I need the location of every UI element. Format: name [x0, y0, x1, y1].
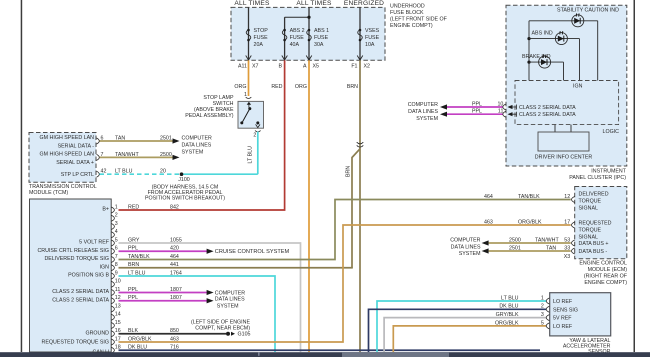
svg-text:X3: X3 — [564, 254, 571, 260]
svg-text:8: 8 — [115, 262, 118, 268]
svg-text:A11: A11 — [238, 64, 247, 70]
svg-text:PPL: PPL — [472, 101, 482, 107]
svg-text:30A: 30A — [314, 42, 324, 48]
svg-text:GROUND: GROUND — [85, 330, 109, 336]
wire DK BLU 716 (EBCM pin 18) — [119, 349, 541, 351]
pin exit arrow F1/X2 — [357, 56, 363, 61]
svg-text:LT BLU: LT BLU — [115, 169, 133, 175]
svg-text:SENS SIG: SENS SIG — [553, 307, 578, 313]
svg-text:463: 463 — [484, 219, 493, 225]
wire LT BLU 1764 (EBCM pin 9 down to bottom) — [119, 276, 276, 352]
wire abs2 fuse feed — [284, 17, 286, 60]
svg-text:J100: J100 — [178, 177, 190, 183]
svg-text:PPL: PPL — [472, 109, 482, 115]
svg-text:DELIVERED: DELIVERED — [579, 191, 609, 197]
bottom toolbar separator — [258, 352, 259, 356]
fuse ABS 1 FUSE 30A — [307, 28, 329, 48]
wire LT BLU (up from bottom to YAW pin 1) — [377, 301, 546, 352]
wire TAN/BLK 464 (EBCM pin 7 up to ECM pin 12) — [119, 200, 571, 260]
svg-text:COMPUTER: COMPUTER — [215, 290, 245, 296]
svg-text:SERIAL DATA +: SERIAL DATA + — [56, 160, 94, 166]
wire RED 842 (abs2 fuse down to EBCM B+) — [119, 60, 285, 210]
wire DK BLU (up from bottom to YAW pin 2) — [369, 309, 547, 352]
svg-text:17: 17 — [564, 219, 570, 225]
schematic page right border — [634, 0, 636, 352]
EBCM pin 13 bracket — [111, 306, 114, 312]
pin exit arrow B — [282, 56, 288, 61]
wire TAN/WHT 2500 (to ECM pin 53) — [489, 242, 571, 244]
node brake branch junction — [527, 61, 530, 64]
fuse ABS 2 FUSE 40A — [282, 28, 304, 48]
svg-text:UNDERHOOD: UNDERHOOD — [390, 4, 425, 10]
wire PPL (IPC pin 10) — [447, 106, 503, 108]
svg-text:INSTRUMENT: INSTRUMENT — [591, 168, 626, 174]
wire ORG/BLK 463 (EBCM pin 17 up to ECM pin 17) — [119, 225, 571, 342]
TCM pin 6 bracket — [97, 138, 100, 144]
EBCM pin 3 bracket — [111, 224, 114, 230]
svg-text:GM HIGH SPEED LAN: GM HIGH SPEED LAN — [40, 152, 95, 158]
wire ORG/BLK (up from bottom to YAW pin 5) — [393, 326, 546, 352]
wire LT BLU 20 dashed (TCM pin 42 to J100) — [100, 173, 182, 175]
pin exit arrow A/X5 — [306, 56, 312, 61]
svg-text:RED: RED — [271, 84, 282, 90]
fuse STOP FUSE 20A — [246, 28, 268, 48]
wire stop fuse feed — [248, 7, 250, 60]
EBCM pin 11 bracket — [111, 290, 114, 296]
svg-text:COMPT, NEAR EBCM): COMPT, NEAR EBCM) — [195, 325, 250, 331]
node jumper junction — [307, 16, 310, 19]
svg-text:VSES: VSES — [365, 28, 380, 34]
switch fixed contact to pin 2 — [256, 121, 259, 124]
svg-text:LT BLU: LT BLU — [128, 270, 146, 276]
wire ORG (abs1 fuse down to bottom) — [308, 60, 310, 352]
svg-text:15: 15 — [115, 320, 121, 326]
wire ORG (stop fuse to stop lamp switch) — [248, 60, 250, 96]
svg-text:CLASS 2 SERIAL DATA: CLASS 2 SERIAL DATA — [519, 112, 576, 118]
svg-text:GRY: GRY — [128, 237, 140, 243]
svg-text:LT BLU: LT BLU — [501, 295, 519, 301]
svg-text:TORQUE: TORQUE — [579, 198, 602, 204]
svg-text:5 VOLT REF: 5 VOLT REF — [79, 240, 110, 246]
svg-text:DK BLU: DK BLU — [128, 345, 147, 351]
svg-text:3: 3 — [115, 221, 118, 227]
arrow to computer data lines (IPC pin 11) — [440, 112, 447, 117]
svg-text:ABS 2: ABS 2 — [290, 28, 305, 34]
EBCM pin 10 bracket — [111, 281, 114, 287]
svg-text:2500: 2500 — [160, 152, 172, 158]
EBCM pin 16 bracket — [111, 331, 114, 337]
svg-text:441: 441 — [170, 262, 179, 268]
svg-text:1055: 1055 — [170, 237, 182, 243]
transmission control module box — [29, 133, 96, 183]
svg-text:33: 33 — [564, 245, 570, 251]
svg-text:ENGINE CONTROL: ENGINE CONTROL — [579, 261, 627, 267]
svg-text:10A: 10A — [365, 42, 375, 48]
IPC pin 10 bracket — [503, 104, 506, 110]
svg-text:464: 464 — [170, 254, 179, 260]
svg-text:BRAKE IND: BRAKE IND — [522, 54, 551, 60]
svg-text:GM HIGH SPEED LAN: GM HIGH SPEED LAN — [40, 135, 95, 141]
class 2 serial data row (pin 10) — [512, 105, 517, 110]
EBCM pin 14 bracket — [111, 314, 114, 320]
EBCM pin 6 bracket — [111, 248, 114, 254]
EBCM pin 1 bracket — [111, 207, 114, 213]
svg-text:ABS IND: ABS IND — [532, 30, 553, 36]
svg-text:420: 420 — [170, 246, 179, 252]
svg-text:REQUESTED TORQUE SIG: REQUESTED TORQUE SIG — [42, 340, 110, 346]
arrow to computer data lines (IPC pin 10) — [440, 104, 447, 109]
svg-text:BRN: BRN — [128, 262, 139, 268]
svg-text:4: 4 — [115, 229, 118, 235]
svg-text:SYSTEM: SYSTEM — [459, 251, 481, 257]
indicator ABS IND — [532, 30, 568, 44]
wire abs1 fuse feed — [308, 7, 310, 60]
svg-text:POSITION SIG B: POSITION SIG B — [68, 273, 109, 279]
svg-text:ABS 1: ABS 1 — [314, 28, 329, 34]
svg-text:SIGNAL: SIGNAL — [579, 235, 598, 241]
svg-text:1: 1 — [541, 295, 544, 301]
yaw and lateral accelerometer sensor box — [550, 293, 611, 336]
svg-text:COMPUTER: COMPUTER — [450, 237, 480, 243]
EBCM pin 2 bracket — [111, 215, 114, 221]
svg-text:53: 53 — [564, 237, 570, 243]
svg-text:COMPUTER: COMPUTER — [182, 136, 212, 142]
stop lamp switch box — [238, 101, 264, 128]
underhood fuse block box — [231, 7, 385, 60]
svg-text:ALL TIMES: ALL TIMES — [234, 0, 270, 7]
EBCM pin 17 bracket — [111, 339, 114, 345]
svg-text:ALL TIMES: ALL TIMES — [296, 0, 332, 7]
svg-text:850: 850 — [170, 328, 179, 334]
svg-text:B: B — [278, 64, 282, 70]
svg-text:COMPUTER: COMPUTER — [408, 102, 438, 108]
wire BRN (vses fuse down to bottom) — [359, 60, 361, 352]
svg-text:ORG/BLK: ORG/BLK — [128, 336, 152, 342]
pin 1 bracket of stop lamp switch — [246, 97, 252, 98]
svg-text:5: 5 — [115, 237, 118, 243]
svg-text:CRUISE CRTL RELEASE SIG: CRUISE CRTL RELEASE SIG — [37, 248, 109, 254]
svg-text:ORG: ORG — [234, 84, 246, 90]
arrow to cruise control system — [207, 249, 214, 254]
arrow to computer data lines (pin 11) — [207, 290, 214, 295]
YAW pin 5 bracket — [546, 323, 549, 329]
ECM pin 33 bracket — [572, 248, 575, 254]
svg-text:SYSTEM: SYSTEM — [182, 150, 204, 156]
connector break symbol on BRN wire — [357, 142, 364, 147]
svg-text:GRY/BLK: GRY/BLK — [496, 312, 519, 318]
svg-text:LO REF: LO REF — [553, 299, 573, 305]
svg-text:TAN: TAN — [546, 245, 556, 251]
svg-text:F1: F1 — [351, 64, 357, 70]
EBCM pin 4 bracket — [111, 232, 114, 238]
svg-text:464: 464 — [484, 194, 493, 200]
svg-text:SYSTEM: SYSTEM — [217, 304, 239, 310]
fuse VSES FUSE 10A — [358, 28, 380, 48]
wire stability indicator branch — [529, 21, 598, 81]
TCM pin 42 bracket — [97, 171, 100, 177]
svg-text:2500: 2500 — [509, 237, 521, 243]
splice J100 — [180, 172, 184, 176]
pin exit arrow A11/X7 — [246, 56, 252, 61]
svg-text:2501: 2501 — [160, 136, 172, 142]
svg-text:PPL: PPL — [128, 295, 138, 301]
arrow from computer data lines (pin 33) — [482, 248, 489, 253]
svg-text:LO REF: LO REF — [553, 324, 573, 330]
wire brake indicator branch — [529, 62, 564, 80]
svg-text:BLK: BLK — [128, 328, 138, 334]
EBCM pin 15 bracket — [111, 323, 114, 329]
svg-text:FUSE: FUSE — [290, 35, 305, 41]
svg-text:A: A — [303, 64, 307, 70]
EBCM pin 8 bracket — [111, 265, 114, 271]
svg-text:FUSE: FUSE — [365, 35, 380, 41]
svg-text:G105: G105 — [238, 332, 251, 338]
svg-text:TORQUE: TORQUE — [579, 228, 602, 234]
svg-text:B+: B+ — [102, 207, 109, 213]
svg-text:IGN: IGN — [100, 264, 110, 270]
ECM pin 17 bracket — [572, 222, 575, 228]
EBCM pin 5 bracket — [111, 240, 114, 246]
svg-text:10: 10 — [115, 279, 121, 285]
svg-text:X5: X5 — [313, 64, 320, 70]
arrow to computer data lines (pin 12) — [207, 298, 214, 303]
arrow from computer data lines (pin 53) — [482, 240, 489, 245]
svg-text:FUSE BLOCK: FUSE BLOCK — [390, 10, 424, 16]
YAW pin 2 bracket — [546, 306, 549, 312]
wire logic to DIC stubs — [555, 125, 571, 132]
TCM pin 7 bracket — [97, 154, 100, 160]
svg-text:SIGNAL: SIGNAL — [579, 205, 598, 211]
svg-text:DRIVER INFO CENTER: DRIVER INFO CENTER — [535, 155, 593, 161]
bottom toolbar bar — [0, 352, 650, 357]
svg-text:SYSTEM: SYSTEM — [416, 116, 438, 122]
svg-text:1: 1 — [115, 204, 118, 210]
wire indicator bus (left) — [528, 21, 530, 81]
ECM pin 53 bracket — [572, 240, 575, 246]
wire TAN 2501 (to ECM pin 33) — [489, 250, 571, 252]
driver info center box — [538, 132, 589, 151]
indicator BRAKE IND — [522, 54, 551, 68]
svg-text:DATA BUS -: DATA BUS - — [579, 249, 608, 255]
svg-text:20A: 20A — [254, 42, 264, 48]
wire BRN jog to x=352 — [352, 149, 360, 268]
svg-text:2: 2 — [541, 304, 544, 310]
svg-text:1807: 1807 — [170, 295, 182, 301]
svg-text:FUSE: FUSE — [314, 35, 329, 41]
EBCM pin 7 bracket — [111, 257, 114, 263]
svg-text:2501: 2501 — [509, 245, 521, 251]
svg-text:1764: 1764 — [170, 270, 182, 276]
electronic brake control module box — [30, 199, 112, 352]
YAW pin 1 bracket — [546, 298, 549, 304]
svg-text:ENERGIZED: ENERGIZED — [344, 0, 384, 7]
arrow to computer data lines (pin 6) — [173, 138, 180, 143]
instrument panel cluster box — [506, 5, 627, 166]
svg-text:20: 20 — [160, 169, 166, 175]
svg-text:X2: X2 — [364, 64, 371, 70]
svg-text:DELIVERED TORQUE SIG: DELIVERED TORQUE SIG — [44, 256, 109, 262]
svg-text:842: 842 — [170, 204, 179, 210]
ground splice G105 — [226, 332, 230, 336]
svg-text:POSITION SWITCH BREAKOUT): POSITION SWITCH BREAKOUT) — [145, 196, 225, 202]
wire GRY 1055 (EBCM pin 5 down to bottom) — [119, 243, 301, 352]
svg-text:DATA LINES: DATA LINES — [408, 109, 438, 115]
svg-text:40A: 40A — [290, 42, 300, 48]
svg-text:6: 6 — [115, 246, 118, 252]
svg-text:(RIGHT REAR OF: (RIGHT REAR OF — [584, 274, 628, 280]
IPC pin 11 bracket — [503, 111, 506, 117]
indicator STABILITY CAUTION IND — [557, 8, 619, 27]
svg-text:10: 10 — [497, 101, 503, 107]
wire TAN/WHT 2500 (TCM pin 7) — [100, 156, 174, 158]
svg-text:11: 11 — [498, 109, 504, 115]
wire TAN 2501 (TCM pin 6) — [100, 140, 174, 142]
svg-text:MODULE (TCM): MODULE (TCM) — [29, 190, 68, 196]
svg-text:MODULE (ECM): MODULE (ECM) — [588, 267, 628, 273]
EBCM pin 18 bracket — [111, 347, 114, 353]
svg-text:TAN: TAN — [115, 136, 125, 142]
wire LT BLU (switch pin 2 down) — [257, 132, 259, 175]
arrow to computer data lines (pin 7) — [173, 155, 180, 160]
svg-text:PEDAL ASSEMBLY): PEDAL ASSEMBLY) — [185, 113, 234, 119]
wire vses fuse feed — [359, 7, 361, 60]
svg-text:PANEL CLUSTER (IPC): PANEL CLUSTER (IPC) — [569, 175, 626, 181]
svg-text:CLASS 2 SERIAL DATA: CLASS 2 SERIAL DATA — [52, 289, 109, 295]
svg-text:5: 5 — [541, 320, 544, 326]
bottom toolbar gray segment — [342, 352, 449, 357]
svg-text:1: 1 — [244, 92, 247, 98]
svg-text:TAN/WHT: TAN/WHT — [115, 152, 139, 158]
svg-text:TAN/WHT: TAN/WHT — [535, 237, 559, 243]
wire abs indicator branch — [529, 39, 580, 81]
svg-text:CLASS 2 SERIAL DATA: CLASS 2 SERIAL DATA — [519, 105, 576, 111]
svg-text:ORG/BLK: ORG/BLK — [518, 219, 542, 225]
svg-text:DATA BUS +: DATA BUS + — [579, 241, 609, 247]
svg-text:(LEFT FRONT SIDE OF: (LEFT FRONT SIDE OF — [390, 17, 448, 23]
svg-text:13: 13 — [115, 303, 121, 309]
svg-text:TAN/BLK: TAN/BLK — [128, 254, 150, 260]
svg-text:5V REF: 5V REF — [553, 316, 572, 322]
svg-text:FUSE: FUSE — [254, 35, 269, 41]
svg-text:12: 12 — [564, 194, 570, 200]
ECM pin 12 bracket — [572, 197, 575, 203]
EBCM pin 9 bracket — [111, 273, 114, 279]
svg-text:RED: RED — [128, 204, 139, 210]
YAW pin 3 bracket — [546, 315, 549, 321]
svg-text:PPL: PPL — [128, 287, 138, 293]
wire LT BLU solid (J100 to switch drop) — [182, 173, 258, 175]
svg-text:2: 2 — [253, 132, 256, 138]
svg-text:REQUESTED: REQUESTED — [579, 221, 612, 227]
engine control module box — [575, 187, 627, 259]
node abs branch junction — [527, 37, 530, 40]
svg-text:ORG/BLK: ORG/BLK — [495, 320, 519, 326]
svg-text:CLASS 2 SERIAL DATA: CLASS 2 SERIAL DATA — [52, 297, 109, 303]
svg-text:9: 9 — [115, 270, 118, 276]
wire GRY/BLK (up from bottom to YAW pin 3) — [384, 318, 546, 352]
svg-text:BRN: BRN — [347, 84, 358, 90]
EBCM pin 12 bracket — [111, 298, 114, 304]
svg-text:ORG: ORG — [295, 84, 307, 90]
svg-text:STABILITY CAUTION IND: STABILITY CAUTION IND — [557, 8, 619, 14]
svg-text:LOGIC: LOGIC — [603, 129, 620, 135]
switch blade — [248, 107, 251, 110]
wire jumper abs2-abs1 — [285, 16, 309, 18]
svg-text:3: 3 — [541, 312, 544, 318]
svg-text:DATA LINES: DATA LINES — [451, 244, 481, 250]
svg-text:DK BLU: DK BLU — [499, 304, 518, 310]
svg-text:STOP: STOP — [254, 28, 269, 34]
svg-text:CRUISE CONTROL SYSTEM: CRUISE CONTROL SYSTEM — [215, 249, 290, 255]
svg-text:14: 14 — [115, 312, 121, 318]
svg-text:PPL: PPL — [128, 246, 138, 252]
svg-text:SERIAL DATA -: SERIAL DATA - — [58, 144, 95, 150]
wire PPL 1807 (EBCM pin 12) — [119, 300, 208, 302]
wire PPL 420 (EBCM pin 6 to cruise control) — [119, 250, 208, 252]
svg-text:LT BLU: LT BLU — [248, 146, 254, 164]
switch contact arrow at pin 1 — [247, 102, 251, 105]
wire PPL (IPC pin 11) — [447, 113, 503, 115]
svg-text:BRN: BRN — [346, 166, 352, 177]
svg-text:TAN/BLK: TAN/BLK — [518, 194, 540, 200]
svg-text:463: 463 — [170, 336, 179, 342]
pin 2 bracket of stop lamp switch — [255, 131, 261, 132]
class 2 serial data row (pin 11) — [512, 112, 517, 117]
svg-text:DATA LINES: DATA LINES — [215, 297, 245, 303]
svg-text:DATA LINES: DATA LINES — [182, 143, 212, 149]
wire BLK 850 (EBCM pin 16 to G105) — [119, 333, 227, 335]
svg-text:ENGINE COMPT): ENGINE COMPT) — [390, 23, 433, 29]
wire BRN 441 (EBCM pin 8 to BRN feed) — [119, 267, 353, 269]
svg-text:ENGINE COMPT): ENGINE COMPT) — [584, 280, 627, 286]
svg-text:1807: 1807 — [170, 287, 182, 293]
svg-text:2: 2 — [115, 213, 118, 219]
schematic page left border — [21, 0, 23, 352]
svg-text:7: 7 — [115, 254, 118, 260]
svg-text:X7: X7 — [252, 64, 259, 70]
svg-text:716: 716 — [170, 345, 179, 351]
wire PPL 1807 (EBCM pin 11) — [119, 292, 208, 294]
svg-text:IGN: IGN — [573, 83, 583, 89]
logic box — [515, 81, 619, 125]
svg-text:STP LP CRTL: STP LP CRTL — [61, 172, 94, 178]
